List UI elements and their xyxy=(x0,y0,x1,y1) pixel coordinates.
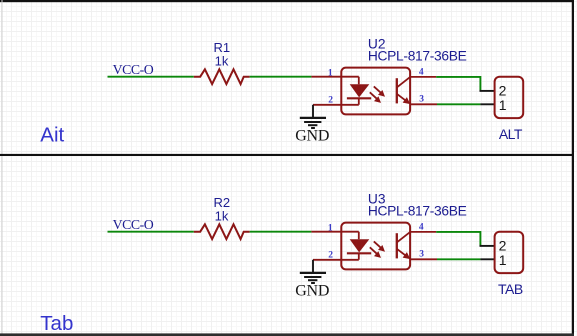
sheet border bottom xyxy=(0,333,574,336)
section separator line xyxy=(0,154,574,156)
resistor R1 xyxy=(194,69,250,84)
phototransistor inside U2 xyxy=(396,78,398,103)
ground symbol xyxy=(300,117,326,119)
sheet border left xyxy=(2,0,3,336)
U2 pin 4 (collector) xyxy=(410,76,436,78)
svg-text:2: 2 xyxy=(328,250,333,260)
svg-text:1k: 1k xyxy=(215,208,229,223)
wire R1 to U2 pin 1 xyxy=(250,76,312,78)
U3 pin 3 (emitter) xyxy=(410,258,437,260)
svg-text:HCPL-817-36BE: HCPL-817-36BE xyxy=(368,204,467,219)
svg-text:4: 4 xyxy=(419,222,424,232)
wire VCC-O to R2 xyxy=(108,231,194,233)
svg-text:Tab: Tab xyxy=(40,312,73,335)
wire U3 pin 2 to ground xyxy=(312,260,314,272)
U3 pin 2 (cathode) xyxy=(313,259,359,261)
svg-text:1k: 1k xyxy=(215,53,229,68)
wire U3 pin 4 to TAB pin 2 xyxy=(436,232,480,246)
sheet border right xyxy=(572,0,574,336)
U2 pin 2 (cathode) xyxy=(313,104,359,106)
svg-text:2: 2 xyxy=(328,95,333,105)
U3 pin 4 (collector) xyxy=(410,231,436,233)
svg-text:GND: GND xyxy=(295,128,329,145)
wire U3 pin 3 to TAB pin 1 xyxy=(437,258,480,260)
connector ALT body xyxy=(495,77,524,118)
svg-text:1: 1 xyxy=(499,97,507,113)
svg-text:1: 1 xyxy=(328,68,333,78)
svg-text:TAB: TAB xyxy=(498,281,523,297)
wire R2 to U3 pin 1 xyxy=(250,231,312,233)
phototransistor inside U3 xyxy=(396,233,398,258)
wire VCC-O to R1 xyxy=(108,76,194,78)
wire U2 pin 2 to ground xyxy=(312,105,314,117)
svg-text:HCPL-817-36BE: HCPL-817-36BE xyxy=(368,49,467,64)
U2 pin 1 (anode) xyxy=(311,76,358,78)
resistor R2 xyxy=(194,224,250,239)
ground symbol xyxy=(300,272,326,274)
svg-text:ALT: ALT xyxy=(499,126,523,142)
LED light emission arrows xyxy=(374,241,381,247)
LED inside U2 xyxy=(358,77,360,105)
svg-text:1: 1 xyxy=(499,252,507,268)
svg-text:GND: GND xyxy=(295,283,329,300)
svg-text:Ait: Ait xyxy=(40,123,64,146)
U3 pin 1 (anode) xyxy=(311,231,358,233)
svg-text:VCC-O: VCC-O xyxy=(113,217,154,232)
sheet border top xyxy=(0,0,574,2)
LED inside U3 xyxy=(358,232,360,260)
U2 pin 3 (emitter) xyxy=(410,103,437,105)
svg-text:4: 4 xyxy=(419,67,424,77)
svg-text:1: 1 xyxy=(328,223,333,233)
LED light emission arrows xyxy=(374,86,381,92)
connector TAB body xyxy=(495,232,524,273)
op-to-coupler U3 body xyxy=(341,223,410,270)
wire U2 pin 4 to ALT pin 2 xyxy=(436,77,480,91)
svg-text:3: 3 xyxy=(419,95,424,105)
wire U2 pin 3 to ALT pin 1 xyxy=(437,103,480,105)
op-to-coupler U2 body xyxy=(341,68,410,115)
svg-text:3: 3 xyxy=(419,250,424,260)
svg-text:VCC-O: VCC-O xyxy=(113,62,154,77)
